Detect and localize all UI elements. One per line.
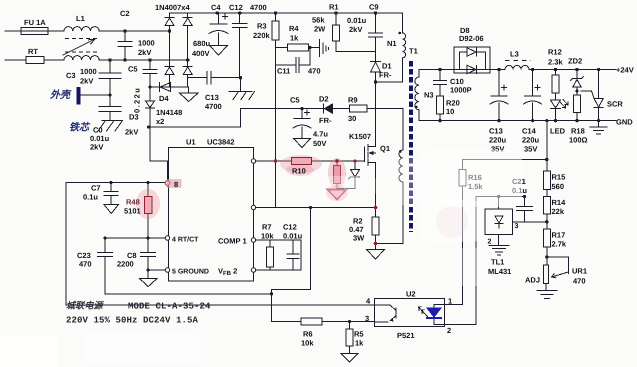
svg-text:R6: R6 bbox=[303, 330, 313, 339]
transformer winding N1 bbox=[403, 13, 406, 82]
svg-text:4700: 4700 bbox=[205, 102, 222, 111]
case bar 外壳 wire bbox=[81, 94, 110, 96]
svg-text:LED: LED bbox=[550, 127, 566, 136]
svg-text:1000P: 1000P bbox=[450, 86, 472, 95]
thyristor SCR bbox=[581, 70, 603, 121]
C4 plus sign bbox=[223, 14, 228, 19]
wire secondary top bbox=[419, 69, 455, 71]
wire outer loop left bbox=[65, 183, 67, 306]
L3 dashes bbox=[505, 60, 531, 62]
wire divider from GND rail bbox=[546, 121, 548, 171]
svg-text:10k: 10k bbox=[261, 232, 274, 241]
transformer aux return bbox=[376, 182, 404, 244]
pin 6 circle bbox=[251, 159, 255, 163]
D8 internal wires bbox=[454, 52, 496, 70]
svg-text:2W: 2W bbox=[314, 25, 326, 34]
wire VFB line bbox=[256, 269, 301, 271]
D8 diode top bbox=[467, 48, 476, 56]
svg-text:R14: R14 bbox=[552, 198, 567, 207]
pin 2 circle bbox=[251, 268, 255, 272]
rectifier D8 box bbox=[454, 47, 490, 73]
svg-text:RT: RT bbox=[28, 47, 38, 56]
opto LED bbox=[427, 305, 445, 325]
inductor L1 top winding bbox=[64, 27, 99, 31]
svg-text:2: 2 bbox=[447, 326, 451, 335]
capacitor C23 bbox=[98, 238, 113, 294]
wire D1 to N1 bottom bbox=[376, 81, 403, 83]
svg-text:C2: C2 bbox=[120, 9, 130, 18]
svg-text:3: 3 bbox=[515, 223, 519, 230]
svg-text:FR-: FR- bbox=[379, 71, 392, 80]
D8 diode bottom bbox=[467, 65, 476, 73]
wire COMP line bbox=[256, 239, 301, 241]
wire D3 node down to pin8 riser bbox=[150, 127, 168, 181]
wire C11 node down bbox=[275, 65, 277, 208]
pin 5 circle bbox=[165, 268, 169, 272]
ground triangle bridge bbox=[180, 93, 199, 102]
wire TL431 cathode line bbox=[476, 196, 525, 198]
capacitor C2 bbox=[118, 31, 132, 60]
chassis ground under C0 bbox=[98, 121, 123, 132]
svg-text:UC3842: UC3842 bbox=[207, 138, 235, 147]
capacitor C12 4700 bbox=[233, 13, 248, 78]
svg-text:R18: R18 bbox=[571, 127, 585, 136]
resistor R5 bbox=[346, 322, 353, 354]
bridge diode top-right bbox=[183, 18, 192, 26]
zener ZD1 gate bbox=[349, 161, 360, 189]
capacitor C9 bbox=[369, 13, 383, 52]
svg-text:N1: N1 bbox=[387, 39, 397, 48]
svg-text:2kV: 2kV bbox=[138, 48, 151, 57]
ground triangle C4 bbox=[210, 46, 228, 56]
wire gate line bbox=[256, 160, 365, 162]
svg-text:3W: 3W bbox=[353, 234, 365, 243]
wire VREF line to pin 8 bbox=[66, 182, 165, 184]
wire comp loop right bbox=[300, 240, 302, 270]
bridge diode top-left bbox=[165, 18, 174, 26]
pin 3 circle bbox=[251, 205, 255, 209]
resistor R17 bbox=[543, 229, 550, 265]
svg-text:N3: N3 bbox=[424, 91, 434, 100]
wire pin5 ground bbox=[148, 269, 168, 271]
wire feedback riser bbox=[272, 208, 311, 322]
pin 8 stub bbox=[167, 181, 169, 186]
svg-text:P521: P521 bbox=[397, 331, 415, 340]
svg-text:560: 560 bbox=[552, 182, 565, 191]
svg-text:C11: C11 bbox=[277, 67, 290, 76]
wire bus C23 bottom bbox=[105, 293, 272, 295]
capacitor C14 electrolytic bbox=[524, 70, 542, 121]
svg-text:C14: C14 bbox=[522, 127, 537, 136]
L1 arrow bbox=[63, 39, 95, 55]
svg-text:3: 3 bbox=[365, 314, 369, 323]
svg-text:外壳: 外壳 bbox=[49, 89, 72, 101]
svg-text:U1: U1 bbox=[186, 138, 196, 147]
capacitor C13 electrolytic bbox=[490, 70, 508, 121]
capacitor C11 bbox=[276, 48, 311, 73]
svg-text:D1: D1 bbox=[382, 62, 392, 71]
wire AC line2 left bbox=[5, 59, 26, 61]
wire DC+ top rail bbox=[170, 12, 403, 14]
wire gate network bottom bbox=[337, 188, 355, 190]
inductor L3 bbox=[496, 66, 616, 70]
svg-text:1k: 1k bbox=[355, 339, 364, 348]
resistor R10 (highlight) bbox=[292, 158, 312, 165]
wire bridge bottom rail bbox=[150, 86, 189, 88]
optocoupler U2 box bbox=[375, 299, 445, 327]
svg-text:0.01u: 0.01u bbox=[283, 232, 303, 241]
svg-text:220u: 220u bbox=[489, 136, 507, 145]
LED indicator bbox=[551, 100, 569, 121]
transformer aux winding feed bbox=[402, 109, 404, 150]
chassis ground at C12 bbox=[229, 78, 255, 100]
diode D2 bbox=[316, 104, 350, 113]
svg-text:30: 30 bbox=[348, 114, 356, 123]
svg-text:城联电源: 城联电源 bbox=[66, 301, 105, 311]
svg-text:U2: U2 bbox=[406, 290, 416, 299]
svg-text:100Ω: 100Ω bbox=[569, 136, 588, 145]
svg-text:C4: C4 bbox=[211, 3, 221, 12]
svg-text:R9: R9 bbox=[348, 96, 358, 105]
svg-text:D2: D2 bbox=[319, 95, 329, 104]
wire D3 node to VCC riser bbox=[150, 126, 241, 128]
ground triangle R2 bbox=[367, 250, 385, 260]
IC TL1 ML431 bbox=[485, 197, 513, 246]
resistor R15 bbox=[543, 171, 550, 197]
earth ground output bbox=[590, 121, 607, 134]
svg-text:1000: 1000 bbox=[138, 39, 155, 48]
resistor R14 bbox=[543, 197, 550, 229]
resistor R12 bbox=[552, 70, 559, 101]
svg-text:MODE CL-A-35-24: MODE CL-A-35-24 bbox=[128, 302, 211, 312]
svg-text:L3: L3 bbox=[510, 50, 519, 59]
svg-text:1k: 1k bbox=[290, 34, 299, 43]
pin 4 circle bbox=[165, 236, 169, 240]
svg-text:D4: D4 bbox=[159, 94, 169, 103]
svg-text:4.7u: 4.7u bbox=[313, 130, 328, 139]
svg-text:10k: 10k bbox=[301, 339, 314, 348]
wire sense line bbox=[463, 159, 547, 161]
svg-text:1N4148: 1N4148 bbox=[156, 108, 182, 117]
resistor R7 bbox=[267, 240, 274, 270]
wire snubber bottom bbox=[336, 51, 376, 53]
capacitor C5 0.22u bbox=[143, 60, 157, 87]
svg-text:FU 1A: FU 1A bbox=[24, 18, 46, 27]
resistor R9 bbox=[350, 105, 404, 112]
svg-text:1000: 1000 bbox=[80, 67, 97, 76]
svg-text:400V: 400V bbox=[192, 49, 210, 58]
svg-text:220V 15% 50Hz DC24V 1.5A: 220V 15% 50Hz DC24V 1.5A bbox=[66, 316, 199, 326]
title block text bbox=[66, 301, 211, 326]
svg-text:C12: C12 bbox=[283, 223, 297, 232]
svg-text:C13: C13 bbox=[489, 127, 503, 136]
capacitor C21 bbox=[517, 197, 533, 222]
svg-text:1: 1 bbox=[448, 297, 452, 306]
svg-text:+24V: +24V bbox=[616, 66, 634, 75]
wire line2 to bridge bbox=[99, 59, 188, 61]
svg-text:ML431: ML431 bbox=[488, 267, 511, 276]
svg-text:T1: T1 bbox=[409, 47, 418, 56]
capacitor C13 disc bbox=[188, 72, 241, 85]
svg-text:C5: C5 bbox=[128, 65, 138, 74]
wire TL431 ref line bbox=[513, 221, 547, 223]
wire R48 column bbox=[147, 183, 149, 239]
svg-text:ADJ: ADJ bbox=[525, 276, 540, 285]
capacitor C12 comp bbox=[287, 240, 299, 270]
svg-text:GND: GND bbox=[616, 118, 633, 127]
ground triangle R5 bbox=[341, 354, 358, 363]
svg-text:R4: R4 bbox=[289, 24, 299, 33]
opto light arrows bbox=[419, 307, 428, 317]
zener ZD2 bbox=[571, 70, 584, 96]
wire line1 to bridge bbox=[99, 30, 169, 32]
resistor R2 bbox=[372, 217, 379, 250]
svg-text:R7: R7 bbox=[262, 223, 272, 232]
svg-text:0.22u: 0.22u bbox=[133, 87, 142, 113]
svg-text:220u: 220u bbox=[522, 136, 540, 145]
bridge diode bottom-right bbox=[183, 67, 192, 75]
earth ground rotated at R4 bbox=[320, 40, 329, 57]
svg-text:0.1u: 0.1u bbox=[83, 193, 98, 202]
svg-text:铁芯: 铁芯 bbox=[69, 122, 91, 134]
svg-text:2: 2 bbox=[488, 239, 492, 246]
resistor R1 bbox=[333, 13, 340, 52]
wire bus opto pin4 bbox=[66, 304, 375, 306]
highlight glows bbox=[136, 155, 468, 238]
svg-text:2kV: 2kV bbox=[349, 25, 362, 34]
transformer winding N3 bbox=[415, 70, 419, 121]
opto phototransistor bbox=[375, 305, 397, 322]
svg-text:R48: R48 bbox=[126, 198, 140, 207]
svg-text:C5: C5 bbox=[290, 96, 300, 105]
svg-text:Q1: Q1 bbox=[380, 144, 390, 153]
potentiometer UR1 bbox=[543, 257, 568, 291]
svg-text:2kV: 2kV bbox=[90, 143, 103, 152]
bridge rectifier 1N4007x4 left column bbox=[169, 13, 171, 87]
svg-text:5101: 5101 bbox=[124, 207, 141, 216]
svg-text:TL1: TL1 bbox=[491, 258, 504, 267]
capacitor C0 bbox=[99, 95, 121, 121]
case bar 外壳 bbox=[76, 87, 80, 105]
wire Q1 source bbox=[375, 163, 377, 218]
pin 1 circle bbox=[251, 238, 255, 242]
svg-text:D3: D3 bbox=[129, 113, 139, 122]
svg-text:R10: R10 bbox=[292, 167, 306, 176]
svg-text:C12: C12 bbox=[229, 3, 243, 12]
bridge diode bottom-left bbox=[165, 67, 174, 75]
wire line2 to L1 bbox=[44, 59, 64, 61]
svg-text:4 RT/CT: 4 RT/CT bbox=[172, 236, 199, 244]
svg-text:FR-: FR- bbox=[319, 116, 332, 125]
resistor R18 bbox=[574, 95, 581, 121]
svg-text:L1: L1 bbox=[76, 14, 85, 23]
svg-text:35V: 35V bbox=[524, 145, 537, 154]
resistor R6 bbox=[301, 318, 322, 325]
IC U1 UC3842 box bbox=[169, 148, 254, 282]
diode D3 bbox=[146, 87, 155, 127]
svg-text:R17: R17 bbox=[552, 231, 566, 240]
capacitor C10 bbox=[434, 70, 447, 97]
ground triangle C8 bbox=[140, 279, 158, 287]
svg-text:5 GROUND: 5 GROUND bbox=[172, 269, 209, 276]
pin 8 circle bbox=[165, 181, 170, 186]
earth ground UR1 bbox=[537, 291, 557, 299]
thermistor RT bbox=[26, 57, 44, 64]
svg-text:UR1: UR1 bbox=[572, 267, 587, 276]
C5 plus sign bbox=[305, 110, 310, 115]
svg-text:2.7k: 2.7k bbox=[552, 240, 567, 249]
capacitor C7 bbox=[104, 183, 118, 205]
wire pin4 RT/CT line bbox=[105, 237, 168, 239]
earth ground TL431 bbox=[489, 245, 509, 255]
red junction dots bbox=[274, 159, 378, 245]
wire opto pin2 bbox=[445, 324, 477, 326]
svg-text:C9: C9 bbox=[369, 3, 379, 12]
transistor Q1 K1507 bbox=[365, 145, 376, 166]
svg-text:470: 470 bbox=[308, 67, 321, 76]
svg-text:D92-06: D92-06 bbox=[459, 34, 484, 43]
resistor R4 bbox=[276, 44, 320, 51]
wire VCC line bbox=[241, 109, 317, 127]
svg-text:8: 8 bbox=[174, 180, 178, 189]
svg-text:2.3k: 2.3k bbox=[548, 58, 563, 67]
resistor R48 (highlight) bbox=[145, 197, 153, 214]
wire opto pin2 riser bbox=[475, 197, 477, 325]
wire AC line1 left bbox=[5, 30, 21, 32]
svg-text:0.01u: 0.01u bbox=[347, 16, 367, 25]
resistor R20 bbox=[437, 96, 444, 121]
resistor R16 bbox=[459, 160, 466, 305]
svg-text:C13: C13 bbox=[205, 93, 219, 102]
resistor R3 bbox=[272, 13, 279, 48]
svg-text:SCR: SCR bbox=[607, 100, 623, 109]
svg-text:R15: R15 bbox=[552, 173, 566, 182]
resistor gate pulldown (highlight) bbox=[334, 161, 341, 189]
wire current sense line bbox=[256, 207, 376, 209]
svg-text:22k: 22k bbox=[552, 207, 565, 216]
diode D1 bbox=[371, 52, 381, 83]
svg-text:470: 470 bbox=[573, 277, 586, 286]
svg-text:2200: 2200 bbox=[117, 260, 134, 269]
svg-text:ZD2: ZD2 bbox=[568, 57, 582, 66]
svg-text:4700: 4700 bbox=[250, 3, 267, 12]
wire drain column bbox=[375, 82, 377, 146]
diode D4 bbox=[150, 83, 188, 92]
svg-text:R12: R12 bbox=[548, 48, 562, 57]
inductor L1 bottom winding bbox=[64, 56, 99, 60]
svg-text:50V: 50V bbox=[313, 139, 326, 148]
svg-text:R3: R3 bbox=[257, 22, 267, 31]
capacitor C4 electrolytic bbox=[209, 13, 228, 46]
svg-text:2kV: 2kV bbox=[80, 77, 93, 86]
watermark white blobs bbox=[0, 150, 522, 367]
capacitor C3 bbox=[99, 60, 121, 95]
svg-text:1N4007x4: 1N4007x4 bbox=[155, 3, 190, 12]
transformer core bbox=[409, 61, 413, 232]
svg-text:470: 470 bbox=[79, 260, 92, 269]
ground triangle gate (highlight) bbox=[328, 190, 347, 200]
bridge rectifier right column bbox=[187, 13, 189, 87]
svg-text:K1507: K1507 bbox=[349, 132, 371, 141]
svg-text:R5: R5 bbox=[354, 330, 364, 339]
svg-text:R1: R1 bbox=[329, 3, 339, 12]
transformer aux winding bbox=[399, 150, 403, 182]
svg-text:C3: C3 bbox=[66, 71, 76, 80]
ground triangle C5 bbox=[294, 139, 311, 148]
wire R6 line bbox=[272, 321, 375, 323]
capacitor C8 bbox=[141, 238, 156, 270]
svg-text:56k: 56k bbox=[312, 16, 325, 25]
ground triangle C7 bbox=[104, 205, 119, 214]
svg-text:220k: 220k bbox=[253, 31, 271, 40]
svg-text:2kV: 2kV bbox=[125, 128, 138, 137]
capacitor C5 electrolytic 4.7u bbox=[293, 109, 311, 139]
wire GND rail bbox=[419, 120, 616, 122]
svg-text:COMP 1: COMP 1 bbox=[218, 237, 247, 246]
wire opto pin1 bbox=[445, 304, 463, 306]
wire line1 to L1 bbox=[48, 30, 64, 32]
svg-text:x2: x2 bbox=[156, 117, 164, 126]
svg-text:680u: 680u bbox=[193, 39, 211, 48]
svg-text:C7: C7 bbox=[91, 184, 101, 193]
svg-text:10: 10 bbox=[446, 107, 454, 116]
fuse FU 1A bbox=[21, 28, 48, 35]
L1 core dashed lines bbox=[65, 39, 98, 53]
